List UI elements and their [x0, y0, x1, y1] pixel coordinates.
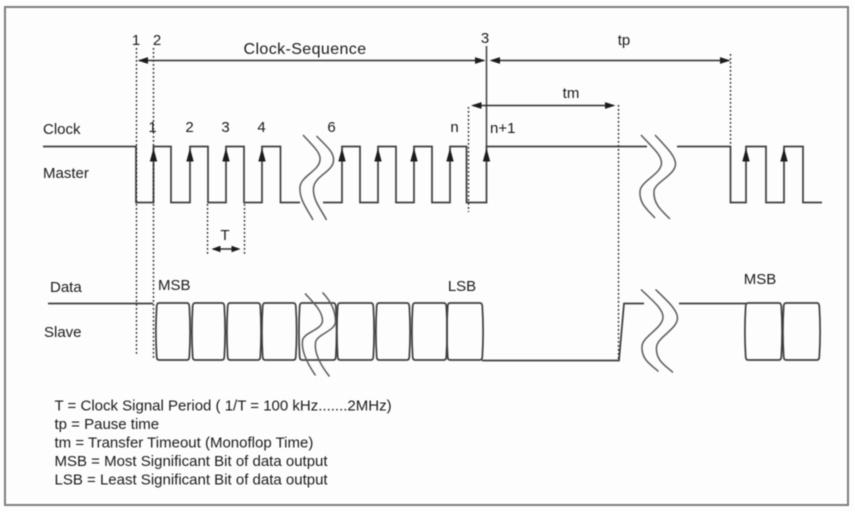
svg-text:T = Clock Signal Period ( 1/T: T = Clock Signal Period ( 1/T = 100 kHz.… [55, 397, 392, 414]
svg-text:Clock: Clock [43, 121, 81, 138]
svg-text:2: 2 [185, 119, 193, 136]
svg-text:LSB: LSB [448, 278, 476, 295]
svg-text:6: 6 [327, 119, 335, 136]
svg-text:MSB: MSB [158, 277, 191, 294]
svg-text:Data: Data [50, 279, 82, 296]
svg-text:LSB = Least Significant Bit of: LSB = Least Significant Bit of data outp… [55, 472, 329, 489]
svg-text:n: n [450, 119, 458, 136]
svg-text:3: 3 [481, 30, 489, 47]
svg-text:Clock-Sequence: Clock-Sequence [244, 41, 367, 58]
svg-text:2: 2 [153, 32, 161, 49]
svg-text:T: T [220, 227, 229, 244]
svg-text:tm: tm [563, 85, 580, 102]
svg-text:n+1: n+1 [490, 120, 515, 137]
svg-text:4: 4 [257, 119, 265, 136]
svg-text:tp: tp [618, 32, 631, 49]
svg-text:Slave: Slave [44, 324, 82, 341]
svg-text:tp = Pause time: tp = Pause time [55, 416, 160, 433]
svg-text:tm = Transfer Timeout (Monoflo: tm = Transfer Timeout (Monoflop Time) [55, 435, 314, 452]
svg-text:1: 1 [132, 32, 140, 49]
svg-text:Master: Master [43, 165, 89, 182]
svg-text:MSB = Most Significant Bit of: MSB = Most Significant Bit of data outpu… [55, 453, 329, 470]
svg-text:3: 3 [221, 119, 229, 136]
svg-text:1: 1 [148, 119, 156, 136]
svg-text:MSB: MSB [744, 271, 777, 288]
